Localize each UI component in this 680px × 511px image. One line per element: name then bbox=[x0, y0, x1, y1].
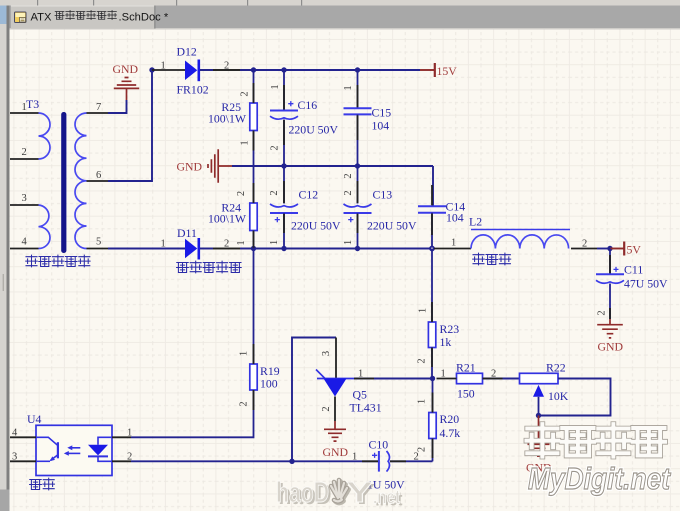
junction C12/rail3 bbox=[281, 246, 286, 251]
svg-text:2: 2 bbox=[270, 145, 281, 150]
svg-text:3: 3 bbox=[22, 193, 27, 204]
GND text (below Q5) bbox=[323, 445, 349, 459]
potentiometer R22 bbox=[520, 361, 569, 416]
svg-text:1: 1 bbox=[352, 452, 357, 463]
svg-text:TL431: TL431 bbox=[350, 401, 382, 415]
svg-text:Y: Y bbox=[346, 477, 373, 509]
capacitor C10 bbox=[367, 438, 405, 492]
GND text (below R22) bbox=[526, 461, 552, 475]
junction R22 wiper bbox=[536, 413, 541, 418]
svg-text:100: 100 bbox=[260, 377, 278, 391]
tab label: ATX[cjk].SchDoc * bbox=[31, 10, 169, 23]
resistor R21 bbox=[441, 361, 520, 401]
svg-text:haoD: haoD bbox=[276, 477, 329, 509]
tab document icon bbox=[15, 12, 27, 23]
GND text (below C11) bbox=[598, 340, 624, 354]
power port 15V bbox=[420, 63, 457, 78]
wire R25 to R24 bbox=[240, 131, 254, 204]
D12 value FR102 bbox=[177, 83, 209, 97]
svg-text:100\1W: 100\1W bbox=[208, 212, 247, 226]
svg-text:C12: C12 bbox=[299, 188, 319, 202]
transformer T3 core bbox=[61, 112, 66, 253]
wire junction up and over to Q5 pin3 bbox=[292, 338, 336, 462]
wire R19 down to U4 pin1 bbox=[131, 390, 254, 437]
capacitor C15 bbox=[343, 70, 391, 179]
svg-text:2: 2 bbox=[321, 406, 332, 411]
svg-text:4: 4 bbox=[12, 428, 18, 439]
optocoupler U4 box bbox=[36, 425, 112, 475]
svg-text:1: 1 bbox=[236, 240, 247, 245]
svg-text:1: 1 bbox=[343, 240, 354, 245]
junction C14-R23/rail3 (donut) bbox=[429, 246, 435, 252]
wire C10 to R20 bottom bbox=[390, 452, 433, 463]
junction C15/rail bbox=[355, 67, 360, 72]
svg-text:R20: R20 bbox=[440, 412, 460, 426]
U4 designator bbox=[27, 412, 42, 426]
svg-text:5V: 5V bbox=[627, 243, 642, 257]
svg-text:.SchDoc *: .SchDoc * bbox=[119, 12, 169, 24]
pin lead D11 cathode bbox=[213, 248, 240, 250]
svg-text:47U 50V: 47U 50V bbox=[624, 277, 668, 291]
WATERMARKS bbox=[276, 424, 672, 511]
pin leads R20 bbox=[432, 393, 434, 459]
svg-text:7: 7 bbox=[96, 102, 101, 113]
U4 pin 1 bbox=[112, 428, 132, 439]
svg-text:2: 2 bbox=[417, 358, 428, 363]
svg-text:5: 5 bbox=[96, 237, 101, 248]
pin leads C13 bbox=[357, 181, 359, 233]
svg-text:220U 50V: 220U 50V bbox=[291, 219, 341, 233]
5V rail wire bbox=[254, 248, 435, 250]
svg-text:2: 2 bbox=[343, 190, 354, 195]
diode D11 body bbox=[185, 238, 199, 260]
svg-text:104: 104 bbox=[372, 119, 390, 133]
pin leads R24 bbox=[253, 183, 255, 248]
svg-text:220U 50V: 220U 50V bbox=[289, 123, 339, 137]
svg-text:1: 1 bbox=[451, 238, 456, 249]
navy wire segments near diode bars bbox=[200, 70, 254, 249]
svg-text:2: 2 bbox=[239, 401, 250, 406]
svg-text:U4: U4 bbox=[27, 412, 42, 426]
pin leads C10 bbox=[362, 460, 406, 462]
svg-text:1: 1 bbox=[239, 351, 250, 356]
svg-text:2: 2 bbox=[597, 310, 608, 315]
svg-text:1: 1 bbox=[127, 428, 132, 439]
svg-text:L2: L2 bbox=[469, 215, 482, 229]
svg-text:Q5: Q5 bbox=[353, 387, 368, 401]
U4 pin 2 bbox=[112, 452, 132, 463]
Q5 pin 2 anode bbox=[321, 397, 335, 422]
wire rail3 down to R19 bbox=[239, 249, 254, 365]
junction R24/rail3 bbox=[251, 246, 256, 251]
svg-text:3: 3 bbox=[12, 452, 17, 463]
T3 pin 3 bbox=[10, 193, 39, 205]
T3 designator bbox=[26, 97, 39, 111]
T3 pin 6 bbox=[87, 170, 109, 181]
svg-text:ATX: ATX bbox=[31, 12, 52, 24]
svg-text:1: 1 bbox=[269, 240, 280, 245]
svg-text:T3: T3 bbox=[26, 97, 39, 111]
svg-text:1: 1 bbox=[161, 61, 166, 72]
power port 5V bbox=[610, 242, 641, 257]
mid GND rail wire bbox=[232, 165, 433, 167]
wire C14 junction down to R23 bbox=[418, 249, 433, 323]
transformer T3 left winding bbox=[39, 113, 51, 249]
svg-text:C13: C13 bbox=[373, 188, 393, 202]
svg-text:2: 2 bbox=[582, 239, 587, 250]
svg-text:GND: GND bbox=[323, 445, 349, 459]
svg-text:3: 3 bbox=[321, 351, 332, 356]
capacitor C12 bbox=[269, 166, 341, 249]
svg-text:100\1W: 100\1W bbox=[208, 112, 247, 126]
Q5 designator bbox=[353, 387, 368, 401]
L2 comment (small inductor, 3 CJK glyphs) bbox=[473, 253, 511, 265]
pin lead D12 cathode bbox=[213, 69, 240, 71]
tab bar bbox=[0, 6, 680, 30]
pin leads C12 bbox=[283, 181, 285, 233]
TL431 Q5 pin 3 bbox=[321, 338, 336, 379]
resistor R24 bbox=[208, 191, 257, 249]
svg-text:1: 1 bbox=[270, 84, 281, 89]
T3 comment (aux transformer, 5 CJK glyphs) bbox=[26, 255, 90, 267]
resistor R25 bbox=[208, 70, 257, 131]
capacitor C14 bbox=[418, 200, 465, 249]
GND text (top) bbox=[113, 62, 139, 76]
U4 comment (opto, 2 CJK glyphs) bbox=[30, 478, 55, 490]
svg-text:C11: C11 bbox=[624, 263, 643, 277]
power ground GND (below Q5) bbox=[324, 421, 346, 441]
svg-text:2: 2 bbox=[414, 452, 419, 463]
pin lead Q5 ref bbox=[354, 378, 374, 380]
svg-text:R23: R23 bbox=[440, 322, 460, 336]
pin leads R25 bbox=[253, 83, 255, 151]
junction C15/C13 rail2 bbox=[355, 163, 360, 168]
resistor R19 bbox=[239, 364, 280, 407]
pin leads R23 bbox=[431, 302, 433, 367]
junction C13/rail3 bbox=[355, 246, 360, 251]
diode D11 pin1 number bbox=[161, 239, 166, 250]
U4 pin 4 bbox=[10, 428, 36, 439]
diode D12 pin 1 bbox=[152, 61, 185, 72]
power ground GND (mid rail, rotated left) bbox=[208, 149, 232, 182]
power ground GND (top, above pin7) bbox=[114, 78, 139, 101]
svg-text:2: 2 bbox=[22, 147, 27, 158]
svg-text:2: 2 bbox=[343, 173, 354, 178]
left panel strip bbox=[0, 6, 10, 511]
top strip bbox=[0, 0, 680, 6]
power ground GND (below R22) bbox=[528, 416, 550, 457]
svg-text:GND: GND bbox=[176, 160, 202, 174]
pin leads C14 bbox=[431, 185, 433, 235]
junction C11/rail3 bbox=[607, 246, 612, 251]
Q5 value TL431 bbox=[350, 401, 382, 415]
svg-text:2: 2 bbox=[240, 91, 251, 96]
TL431 Q5 body bbox=[316, 370, 354, 397]
svg-text:R21: R21 bbox=[456, 361, 476, 375]
watermark MyDigit.net bbox=[528, 462, 672, 496]
capacitor C16 bbox=[270, 70, 339, 166]
resistor R20 bbox=[417, 379, 461, 462]
svg-text:220U 50V: 220U 50V bbox=[367, 219, 417, 233]
svg-text:1: 1 bbox=[161, 239, 166, 250]
svg-text:1: 1 bbox=[418, 308, 429, 313]
T3 pin 5 bbox=[87, 237, 109, 249]
active tab ATX SchDoc bbox=[11, 6, 156, 29]
svg-text:C15: C15 bbox=[372, 106, 392, 120]
T3 pin 4 bbox=[10, 237, 39, 249]
wire pin7 to GND corner bbox=[108, 100, 127, 113]
svg-text:GND: GND bbox=[113, 62, 139, 76]
capacitor C13 bbox=[343, 166, 417, 249]
junction divider node bbox=[430, 376, 435, 381]
diode D11 pin 2 bbox=[200, 239, 254, 250]
U4 emitter arrow bbox=[50, 456, 55, 461]
wire junction to C10 bbox=[292, 452, 378, 463]
pin leads C16 bbox=[283, 85, 285, 145]
wire pin5 to D11 bbox=[108, 248, 185, 250]
junction R25/rail bbox=[251, 67, 256, 72]
svg-text:FR102: FR102 bbox=[177, 83, 209, 97]
svg-text:1k: 1k bbox=[440, 335, 452, 349]
svg-text:D12: D12 bbox=[177, 45, 197, 59]
inductor L2 bbox=[434, 215, 610, 250]
watermark CJK big (4 glyphs) bbox=[526, 424, 665, 456]
D12 designator bbox=[177, 45, 197, 59]
svg-text:GND: GND bbox=[598, 340, 624, 354]
wire U4 pin2 to bottom junction bbox=[131, 460, 292, 462]
svg-text:4: 4 bbox=[22, 237, 28, 248]
svg-text:MyDigit.net: MyDigit.net bbox=[528, 462, 672, 496]
pin leads R21 bbox=[437, 378, 503, 380]
node at D12 anode bbox=[149, 67, 154, 72]
junction C16/C12 rail2 bbox=[281, 163, 286, 168]
svg-text:150: 150 bbox=[457, 387, 475, 401]
svg-text:1: 1 bbox=[343, 85, 354, 90]
pin leads R19 bbox=[253, 344, 255, 410]
svg-text:10K: 10K bbox=[548, 389, 569, 403]
diode D12 pin 2 bbox=[200, 61, 254, 72]
svg-text:6: 6 bbox=[96, 170, 101, 181]
wire R22 wrap-around bbox=[539, 379, 611, 416]
svg-text:R22: R22 bbox=[546, 361, 566, 375]
U4 LED bbox=[88, 437, 112, 461]
GND text (mid) bbox=[176, 160, 202, 174]
svg-text:15V: 15V bbox=[437, 64, 458, 78]
svg-text:4.7k: 4.7k bbox=[440, 426, 461, 440]
svg-text:C10: C10 bbox=[369, 438, 389, 452]
pin leads C15 bbox=[357, 85, 359, 140]
wire rail2 corner down to C14 bbox=[432, 166, 434, 206]
Q5 pin 1 wire to R divider bbox=[354, 369, 433, 380]
svg-text:104: 104 bbox=[446, 211, 464, 225]
pin leads C11 bbox=[609, 255, 611, 319]
transformer T3 right winding bbox=[75, 113, 87, 249]
svg-text:C16: C16 bbox=[298, 98, 318, 112]
U4 phototransistor bbox=[36, 437, 58, 461]
svg-text:.net: .net bbox=[373, 488, 401, 509]
D11 comment (max diode, 5 CJK glyphs) bbox=[177, 261, 242, 273]
U4 pin 3 bbox=[10, 452, 36, 463]
T3 pin 2 bbox=[10, 147, 39, 159]
svg-text:1: 1 bbox=[417, 399, 428, 404]
resistor R23 bbox=[417, 322, 460, 379]
svg-text:2: 2 bbox=[236, 191, 247, 196]
junction C16/rail bbox=[281, 67, 286, 72]
svg-text:2: 2 bbox=[269, 190, 280, 195]
capacitor C11 bbox=[596, 249, 668, 320]
T3 pin 7 bbox=[87, 102, 109, 113]
D11 designator bbox=[177, 226, 197, 240]
T3 pin 1 bbox=[10, 102, 39, 113]
watermark haoDIY.net bbox=[276, 477, 403, 511]
U4 light arrows bbox=[68, 448, 80, 454]
diode D12 body bbox=[185, 60, 199, 82]
svg-text:1: 1 bbox=[240, 140, 251, 145]
power ground GND (below C11) bbox=[597, 319, 623, 338]
svg-text:D11: D11 bbox=[177, 226, 197, 240]
+15V rail wire bbox=[254, 69, 421, 71]
junction bottom-left bbox=[289, 459, 294, 464]
wire pin6 up to D12 anode node bbox=[108, 70, 152, 181]
